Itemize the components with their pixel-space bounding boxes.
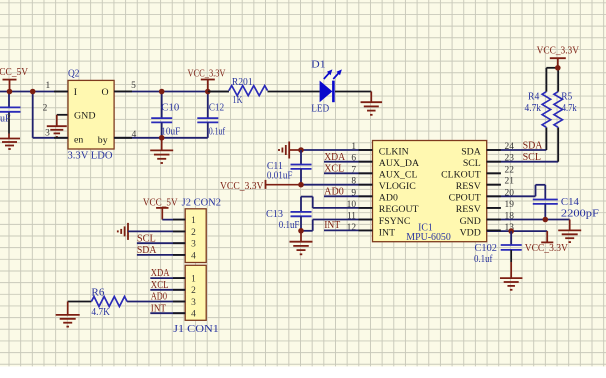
svg-text:4.7K: 4.7K xyxy=(91,307,110,318)
svg-text:1K: 1K xyxy=(233,95,244,106)
svg-text:CLKIN: CLKIN xyxy=(379,146,409,157)
svg-text:SDA: SDA xyxy=(461,146,481,157)
svg-text:C14: C14 xyxy=(561,197,579,208)
svg-text:2: 2 xyxy=(43,103,48,113)
svg-text:4.7k: 4.7k xyxy=(562,103,577,114)
svg-text:VCC_5V: VCC_5V xyxy=(0,67,29,78)
svg-text:R5: R5 xyxy=(561,92,572,103)
svg-text:by: by xyxy=(98,135,108,146)
svg-text:C12: C12 xyxy=(209,103,225,114)
svg-text:0.01uF: 0.01uF xyxy=(267,171,293,182)
svg-text:3.3V LDO: 3.3V LDO xyxy=(68,151,114,162)
svg-text:VCC_3.3V: VCC_3.3V xyxy=(220,181,264,192)
svg-text:XCL: XCL xyxy=(151,280,169,291)
svg-text:SDA: SDA xyxy=(523,140,544,151)
svg-text:R6: R6 xyxy=(91,288,104,299)
svg-text:I: I xyxy=(74,87,77,98)
svg-text:R4: R4 xyxy=(528,92,539,103)
svg-text:GND: GND xyxy=(460,216,481,227)
svg-text:LED: LED xyxy=(311,104,329,115)
svg-text:3: 3 xyxy=(191,240,196,250)
svg-text:AUX_DA: AUX_DA xyxy=(379,158,419,169)
svg-text:GND: GND xyxy=(74,111,96,122)
svg-text:1: 1 xyxy=(45,81,50,91)
svg-text:INT: INT xyxy=(324,220,340,231)
svg-text:XDA: XDA xyxy=(324,152,346,163)
svg-text:D1: D1 xyxy=(311,59,326,70)
svg-text:en: en xyxy=(74,134,83,145)
svg-text:2200pF: 2200pF xyxy=(561,209,599,220)
svg-text:19: 19 xyxy=(505,200,515,210)
svg-text:C10: C10 xyxy=(161,103,179,114)
svg-text:RESV: RESV xyxy=(456,204,481,215)
svg-text:VCC_3.3V: VCC_3.3V xyxy=(525,243,569,254)
svg-text:FSYNC: FSYNC xyxy=(379,216,411,227)
svg-text:INT: INT xyxy=(151,303,166,314)
svg-text:INT: INT xyxy=(379,227,395,238)
svg-text:XCL: XCL xyxy=(324,164,344,175)
svg-text:R201: R201 xyxy=(232,77,253,88)
svg-text:4: 4 xyxy=(191,251,196,261)
svg-text:1: 1 xyxy=(191,216,196,226)
svg-text:SDA: SDA xyxy=(137,245,157,256)
svg-text:VLOGIC: VLOGIC xyxy=(379,181,416,192)
svg-text:J2 CON2: J2 CON2 xyxy=(182,198,221,209)
svg-text:C13: C13 xyxy=(266,209,283,220)
svg-text:0.1uF: 0.1uF xyxy=(279,220,300,231)
svg-text:MPU-6050: MPU-6050 xyxy=(406,232,451,243)
svg-text:J1 CON1: J1 CON1 xyxy=(173,324,219,335)
svg-text:SCL: SCL xyxy=(523,152,541,163)
svg-text:REGOUT: REGOUT xyxy=(379,204,419,215)
svg-text:VCC_5V: VCC_5V xyxy=(143,198,178,209)
svg-text:2: 2 xyxy=(191,286,196,296)
svg-text:21: 21 xyxy=(505,177,515,187)
svg-text:12: 12 xyxy=(347,223,357,233)
svg-text:AD0: AD0 xyxy=(324,187,344,198)
svg-text:RESV: RESV xyxy=(456,181,481,192)
svg-text:2: 2 xyxy=(191,228,196,238)
svg-text:C102: C102 xyxy=(475,243,498,254)
svg-text:0.1uf: 0.1uf xyxy=(474,254,493,265)
svg-text:SCL: SCL xyxy=(137,233,156,244)
svg-text:VDD: VDD xyxy=(460,227,481,238)
svg-text:4.7k: 4.7k xyxy=(525,103,542,114)
svg-text:4: 4 xyxy=(191,310,196,320)
svg-text:uF: uF xyxy=(0,113,11,124)
svg-text:XDA: XDA xyxy=(151,268,170,279)
svg-text:VCC_3.3V: VCC_3.3V xyxy=(188,69,226,80)
svg-text:10uF: 10uF xyxy=(161,127,180,138)
svg-text:VCC_3.3V: VCC_3.3V xyxy=(537,46,580,57)
svg-text:CLKOUT: CLKOUT xyxy=(441,170,481,181)
svg-text:AUX_CL: AUX_CL xyxy=(379,170,418,181)
svg-text:0.1uf: 0.1uf xyxy=(209,127,226,138)
svg-text:22: 22 xyxy=(505,165,515,175)
svg-text:5: 5 xyxy=(131,81,136,91)
svg-text:1: 1 xyxy=(191,275,196,285)
svg-text:SCL: SCL xyxy=(463,158,481,169)
svg-text:3: 3 xyxy=(191,298,196,308)
svg-text:AD0: AD0 xyxy=(379,193,398,204)
svg-text:3: 3 xyxy=(45,129,50,139)
svg-text:Q2: Q2 xyxy=(68,69,80,80)
svg-text:O: O xyxy=(102,87,109,98)
svg-text:CPOUT: CPOUT xyxy=(449,193,481,204)
